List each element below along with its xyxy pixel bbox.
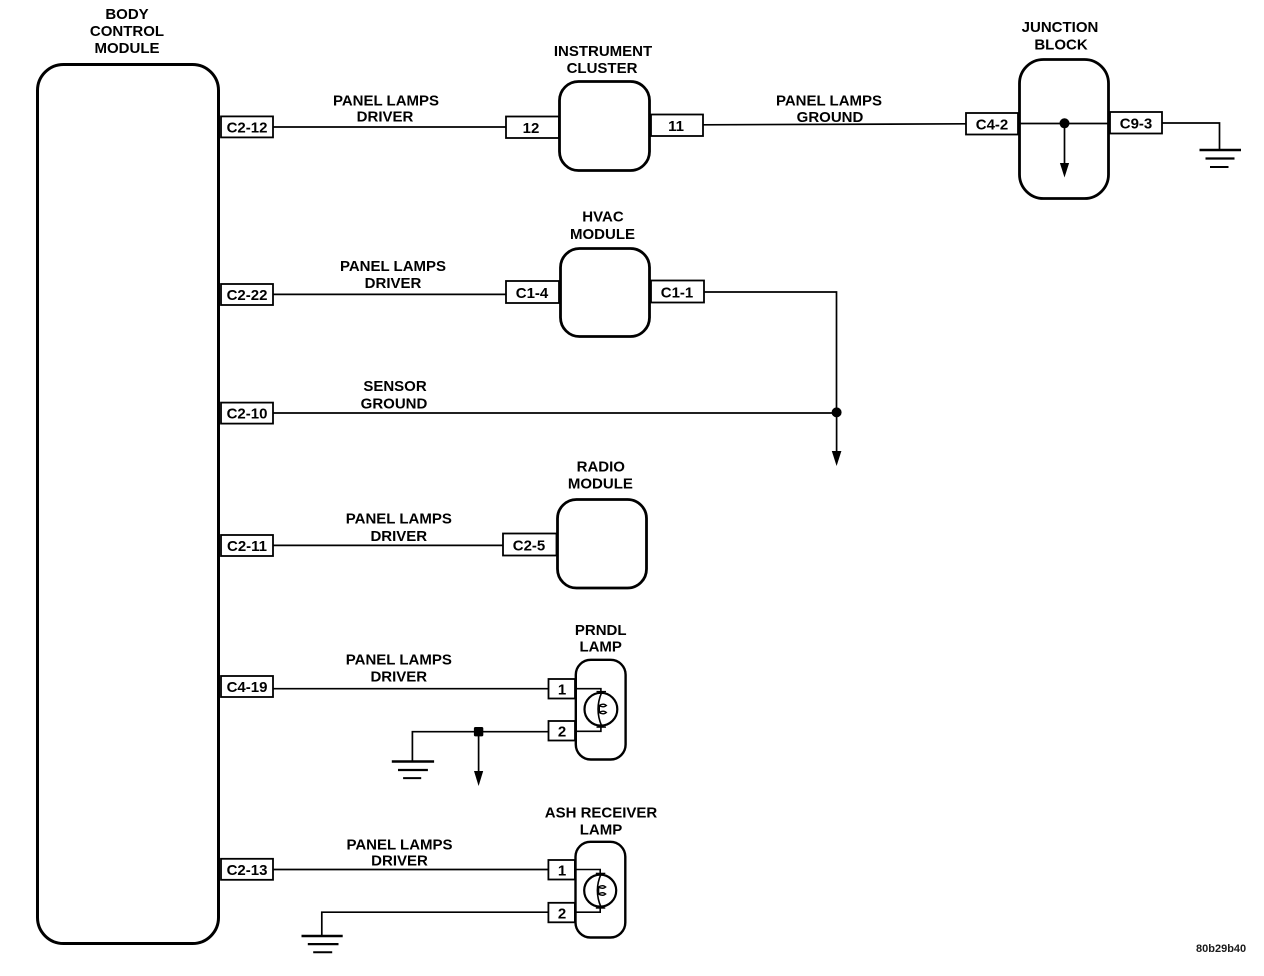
svg-text:ASH RECEIVER: ASH RECEIVER [545, 805, 658, 822]
svg-text:PANEL LAMPS: PANEL LAMPS [346, 836, 452, 853]
svg-text:C9-3: C9-3 [1120, 116, 1153, 133]
body control module U1 box [38, 65, 219, 944]
svg-text:PANEL LAMPS: PANEL LAMPS [346, 652, 452, 669]
pin C9-3 [1110, 112, 1162, 134]
pin C2-10 [221, 403, 273, 424]
junction node dot PRNDL ground [474, 727, 483, 736]
svg-text:C2-5: C2-5 [513, 538, 546, 555]
svg-text:PANEL LAMPS: PANEL LAMPS [340, 258, 446, 275]
net label PANEL LAMPS GROUND [776, 93, 882, 127]
wire C2-11 to radio pin C2-5 [273, 544, 503, 546]
svg-text:DRIVER: DRIVER [357, 109, 414, 126]
svg-text:DRIVER: DRIVER [365, 275, 422, 292]
arrow continuation sensor ground [832, 412, 842, 466]
lamp DS1 internal wiring [575, 689, 606, 732]
svg-text:80b29b40: 80b29b40 [1196, 943, 1246, 955]
lamp DS1 bulb circle [585, 693, 618, 726]
svg-text:MODULE: MODULE [570, 226, 635, 243]
svg-text:C2-13: C2-13 [227, 862, 268, 879]
pin C2-13 [221, 859, 273, 880]
pin 1 ash receiver [548, 860, 575, 880]
svg-text:DRIVER: DRIVER [371, 852, 428, 869]
ground symbol ash receiver [302, 936, 343, 952]
svg-text:LAMP: LAMP [580, 822, 623, 839]
wire C9-3 to ground [1162, 123, 1220, 150]
junction block label [1022, 19, 1099, 54]
svg-text:GROUND: GROUND [797, 109, 864, 126]
svg-text:DRIVER: DRIVER [370, 669, 427, 686]
wire through junction block [1018, 123, 1110, 125]
svg-text:MODULE: MODULE [95, 40, 160, 57]
svg-text:1: 1 [558, 863, 566, 880]
svg-text:PANEL LAMPS: PANEL LAMPS [346, 510, 452, 527]
svg-text:C2-12: C2-12 [227, 119, 268, 136]
wire ash receiver pin 2 to ground [322, 912, 549, 935]
wire C2-13 to ash receiver lamp pin 1 [273, 869, 548, 871]
ground symbol PRNDL [392, 762, 434, 779]
arrow continuation PRNDL ground [474, 732, 483, 786]
wire C2-12 to instrument cluster pin 12 [273, 126, 506, 128]
svg-text:2: 2 [558, 905, 566, 922]
lamp DS2 filament [597, 875, 605, 907]
svg-text:C4-2: C4-2 [976, 117, 1009, 134]
svg-text:C2-22: C2-22 [227, 287, 268, 304]
HVAC module label [570, 209, 635, 243]
pin C4-19 [221, 676, 273, 697]
svg-text:C2-10: C2-10 [227, 406, 268, 423]
junction node dot [1060, 118, 1070, 128]
svg-text:GROUND: GROUND [361, 395, 428, 412]
svg-text:CONTROL: CONTROL [90, 23, 164, 40]
pin C2-5 [503, 534, 557, 556]
pin 1 PRNDL [549, 679, 576, 699]
wire C4-19 to PRNDL lamp pin 1 [273, 688, 549, 690]
lamp DS2 internal wiring [575, 870, 605, 913]
svg-text:DRIVER: DRIVER [370, 528, 427, 545]
pin C2-22 [221, 284, 273, 305]
svg-text:LAMP: LAMP [579, 639, 622, 656]
arrow to ground inside junction block [1060, 124, 1069, 178]
net label PANEL LAMPS DRIVER row1 [333, 93, 439, 126]
svg-text:INSTRUMENT: INSTRUMENT [554, 43, 652, 60]
svg-text:BODY: BODY [105, 6, 148, 23]
svg-text:1: 1 [558, 682, 566, 699]
svg-text:11: 11 [668, 118, 684, 135]
wire C1-1 down to sensor ground node [704, 292, 837, 413]
svg-text:HVAC: HVAC [582, 209, 624, 226]
body control module U1 label [90, 6, 164, 57]
svg-text:CLUSTER: CLUSTER [567, 60, 638, 77]
PRNDL lamp body [576, 660, 626, 760]
svg-text:MODULE: MODULE [568, 476, 633, 493]
svg-text:RADIO: RADIO [577, 458, 626, 475]
PRNDL lamp label [575, 622, 627, 656]
pin C4-2 [966, 113, 1018, 135]
pin 2 ash receiver [548, 903, 575, 923]
svg-text:C4-19: C4-19 [227, 679, 268, 696]
pin C2-11 [221, 535, 273, 556]
svg-text:C1-4: C1-4 [516, 285, 549, 302]
radio module label [568, 458, 633, 492]
wire PRNDL pin 2 to ground [412, 732, 548, 761]
net label PANEL LAMPS DRIVER row2 [340, 258, 446, 292]
wire C2-22 to HVAC pin C1-4 [273, 293, 506, 295]
svg-text:PANEL LAMPS: PANEL LAMPS [776, 93, 882, 110]
HVAC module box [561, 249, 650, 337]
ash receiver lamp body [576, 842, 626, 938]
svg-text:12: 12 [523, 120, 540, 137]
ash receiver lamp label [545, 805, 658, 839]
instrument cluster label [554, 43, 652, 77]
pin C1-1 [651, 281, 704, 303]
net label PANEL LAMPS DRIVER row4 [346, 510, 452, 545]
svg-text:PRNDL: PRNDL [575, 622, 627, 639]
ground symbol right [1200, 150, 1242, 167]
svg-text:JUNCTION: JUNCTION [1022, 19, 1099, 36]
wire C2-10 sensor ground [273, 412, 837, 414]
pin C1-4 [506, 281, 559, 303]
svg-text:C2-11: C2-11 [227, 538, 267, 555]
lamp DS2 bulb circle [584, 875, 616, 907]
svg-text:SENSOR: SENSOR [363, 378, 427, 395]
junction node dot sensor ground [832, 407, 842, 417]
wire pin 11 to junction block C4-2 [703, 124, 966, 125]
lamp DS1 filament [598, 693, 606, 726]
svg-text:PANEL LAMPS: PANEL LAMPS [333, 93, 439, 110]
svg-text:BLOCK: BLOCK [1034, 37, 1087, 54]
junction block box [1020, 60, 1109, 199]
net label PANEL LAMPS DRIVER row6 [346, 836, 452, 869]
svg-text:2: 2 [558, 724, 566, 741]
pin 11 [651, 115, 703, 137]
instrument cluster box [560, 82, 650, 171]
pin C2-12 [221, 116, 273, 137]
pin 12 [506, 117, 559, 139]
net label SENSOR GROUND [361, 378, 428, 412]
net label PANEL LAMPS DRIVER row5 [346, 652, 452, 686]
radio module box [558, 500, 647, 589]
svg-text:C1-1: C1-1 [661, 285, 694, 302]
pin 2 PRNDL [549, 721, 576, 741]
